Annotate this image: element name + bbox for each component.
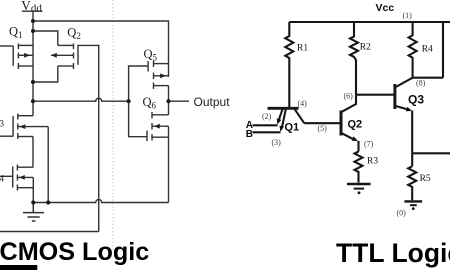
transistor Q1 (PMOS)	[13, 44, 33, 70]
wire: Q2 drain jog to drain node	[33, 66, 58, 82]
wire: Q3 emitter down to node and R5	[411, 111, 413, 167]
svg-text:(7): (7)	[364, 140, 374, 149]
transistor Q3 collector	[395, 78, 413, 88]
wire: inverter gate bracket	[129, 66, 149, 137]
wire: input A	[253, 124, 278, 126]
transistor Q3 emitter	[395, 106, 408, 110]
transistor Q2 emitter	[341, 133, 354, 140]
svg-text:(0): (0)	[397, 209, 407, 218]
wire: input B bottom line	[0, 231, 99, 233]
transistor Q5 (PMOS of inverter)	[148, 61, 168, 90]
junction: Vdd rail tap	[31, 19, 35, 23]
wire: right edge vertical	[442, 22, 444, 78]
junction: ground node left	[31, 200, 35, 204]
transistor Q2 (PMOS, mirrored)	[51, 44, 78, 70]
ground (CMOS)	[23, 203, 44, 222]
svg-text:(1): (1)	[403, 11, 413, 20]
wire: Q2 emitter to R3	[357, 141, 359, 152]
wire: Vcc rail	[289, 21, 450, 23]
svg-text:R1: R1	[297, 44, 308, 54]
wire: Q1 collector to Q2 base	[304, 122, 340, 124]
resistor R4	[409, 22, 417, 78]
wire: node 6 to Q3 base	[356, 94, 395, 96]
wire: node between Q3 and Q4	[32, 137, 34, 168]
svg-text:(2): (2)	[262, 112, 272, 121]
resistor R5	[408, 166, 416, 200]
wire: ground rail with hop over B riser	[33, 200, 168, 203]
wire: input B	[253, 131, 281, 133]
svg-text:(6): (6)	[344, 91, 354, 100]
svg-text:(5): (5)	[318, 124, 328, 133]
wire: Q6 body/source to ground rail	[168, 126, 170, 202]
ground dot pin 0	[412, 207, 415, 210]
wire: Vdd vertical main line	[32, 11, 34, 116]
svg-text:Output: Output	[194, 95, 231, 109]
wire: input stub to Q4 gate	[0, 175, 13, 177]
transistor Q1 base bar	[268, 107, 299, 110]
junction: inverter gate node	[127, 99, 131, 103]
junction: Q1/Q2 drain node	[31, 80, 35, 84]
junction: ground node body tie	[46, 200, 50, 204]
wire: top rail Vdd to Q5	[33, 21, 169, 77]
svg-text:(3): (3)	[272, 138, 282, 147]
svg-text:R2: R2	[360, 43, 371, 53]
resistor R2	[350, 22, 358, 94]
svg-text:R3: R3	[367, 157, 378, 167]
TTL arrowheads	[277, 107, 415, 210]
junction: output node	[166, 99, 170, 103]
ground under R3	[347, 183, 371, 185]
resistor R3	[355, 152, 363, 183]
svg-text:Q1: Q1	[285, 122, 300, 134]
svg-text:TTL Logic: TTL Logic	[336, 238, 450, 268]
transistor Q4 (NMOS)	[13, 165, 34, 191]
svg-text:Q2: Q2	[348, 119, 363, 131]
junction: Q2 source branch	[31, 29, 35, 33]
wire: input B vertical riser to Q2 gate	[78, 45, 99, 231]
svg-text:(8): (8)	[416, 79, 426, 88]
arrow Q2 emitter	[352, 136, 359, 141]
svg-text:CMOS Logic: CMOS Logic	[0, 238, 149, 266]
wire: input A stub to Q1 gate	[0, 45, 13, 47]
dotted divider line	[112, 0, 114, 250]
svg-text:(4): (4)	[298, 99, 308, 108]
svg-text:Vcc: Vcc	[376, 2, 395, 14]
transistor Q2 base bar	[340, 111, 343, 136]
wire: branch Vdd to Q2 source	[33, 31, 58, 45]
wire: Q4 source to ground	[32, 177, 34, 202]
svg-text:Vdd: Vdd	[21, 0, 42, 15]
partial text bar bottom left	[0, 265, 37, 270]
wire: input stub to Q3 gate	[0, 135, 13, 137]
wire: NAND node X to inverter input with hop over B riser	[33, 98, 129, 101]
transistor Q3 (NMOS)	[13, 114, 48, 140]
wire: output line to right	[412, 152, 450, 154]
wire: Q3 body tie to ground	[47, 127, 49, 203]
resistor R1	[285, 22, 293, 107]
svg-text:B: B	[246, 129, 253, 140]
ground dot R3	[358, 191, 361, 194]
transistor Q2 collector	[341, 94, 356, 112]
svg-text:R5: R5	[420, 174, 431, 184]
arrow Q1 emitter 1	[277, 118, 282, 124]
transistor Q1 emitter 2	[282, 109, 286, 127]
wire: Q5 drain to output node to Q6 drain	[168, 86, 170, 115]
arrow Q1 emitter 2	[279, 126, 284, 132]
svg-text:R4: R4	[422, 45, 433, 55]
wire: node 8 line to right	[413, 77, 443, 79]
transistor Q6 (NMOS of inverter)	[147, 112, 169, 141]
wire: output stub	[169, 100, 190, 102]
transistor Q1 collector diagonal	[295, 109, 305, 123]
transistor Q3 base bar	[393, 84, 396, 109]
svg-text:Q3: Q3	[408, 93, 424, 107]
arrow Q3 emitter	[406, 107, 412, 112]
ground at pin 0	[404, 200, 422, 202]
Vdd underline	[22, 10, 43, 12]
junction: NAND output node X	[31, 99, 35, 103]
transistor Q1 emitter 1	[279, 109, 283, 120]
